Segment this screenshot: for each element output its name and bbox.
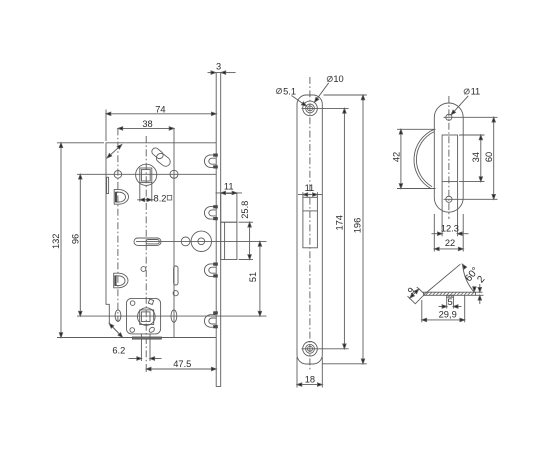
faceplate side view lines — [216, 73, 221, 387]
lock case outline — [106, 143, 216, 338]
svg-text:60: 60 — [484, 152, 494, 162]
top screw hole — [446, 114, 452, 120]
deadbolt inner line — [224, 222, 226, 259]
svg-text:38: 38 — [142, 119, 152, 129]
small pin circle — [141, 267, 146, 272]
mounting foot under plate — [132, 337, 161, 339]
angled capsule lower lobe — [154, 152, 172, 169]
slotted link capsule outer — [134, 238, 161, 245]
dim 42 — [391, 129, 435, 188]
dim 38 — [118, 119, 174, 130]
bent lip (45 deg) — [410, 289, 425, 304]
dim 51 — [248, 241, 262, 316]
strike plate centerline (dashed) — [448, 96, 450, 219]
dim 25.8 deadbolt height — [239, 201, 254, 260]
edge tab 1 — [204, 154, 217, 169]
screw hole left — [114, 171, 122, 179]
deadbolt — [221, 222, 237, 259]
dim 196 — [322, 95, 367, 364]
svg-text:3: 3 — [216, 61, 221, 71]
small rectangle on left edge — [107, 177, 109, 193]
curved lip wing inner arc — [416, 132, 434, 187]
top hole crosshair / 174 extension — [302, 107, 349, 109]
lower hub square outer — [140, 310, 154, 325]
strip hatching — [426, 292, 475, 295]
D-shaped hole lower inner — [116, 276, 125, 286]
horizontal centerline upper hub (96 top extension) — [77, 173, 216, 175]
dim 2 thickness arrows — [476, 284, 484, 304]
D-shaped hole upper outer — [114, 190, 128, 205]
svg-text:11: 11 — [224, 182, 234, 192]
dim 11 latch width — [216, 182, 243, 195]
strike plate outline (stadium) — [434, 103, 463, 212]
deadbolt cylinder inner — [198, 238, 205, 245]
svg-text:174: 174 — [335, 215, 345, 231]
top screw hole mid — [306, 104, 315, 113]
svg-text:18: 18 — [305, 374, 315, 384]
svg-text:47.5: 47.5 — [173, 359, 191, 369]
ellipse on left internal line — [115, 310, 121, 321]
bottom hole crosshair / 60 extension — [444, 198, 498, 200]
strike plate section strip — [424, 292, 476, 295]
D-shaped hole upper inner — [117, 192, 126, 202]
deadbolt cylinder outer — [191, 231, 211, 251]
dim 132 — [51, 143, 123, 338]
top screw hole inner — [308, 106, 313, 111]
svg-text:8.2: 8.2 — [154, 194, 167, 204]
bottom screw hole counterbore — [303, 342, 318, 357]
60 degree angle line — [425, 264, 460, 293]
placeholder groups filled by editor — [51, 61, 267, 386]
dim 60 — [484, 117, 495, 199]
upper hub square hole inner — [141, 170, 150, 181]
screw hole right — [170, 170, 178, 178]
upper hub square hole outer — [140, 168, 152, 183]
plate corner oval bottom-right — [148, 326, 155, 333]
latch window — [303, 197, 318, 248]
internal plate line left (dash-dot centerline) — [117, 128, 119, 322]
svg-text:74: 74 — [155, 104, 165, 114]
corner chamfer arrow top-left — [106, 143, 123, 159]
latch window divider — [303, 210, 318, 212]
tab hatching — [448, 295, 453, 297]
svg-text:10: 10 — [333, 74, 343, 84]
faceplate centerline (dashed) — [309, 77, 311, 371]
plate corner hole bottom-left — [130, 328, 135, 333]
plate corner hole top-left — [130, 301, 135, 306]
deadbolt centerline — [136, 240, 267, 242]
D lower left bar — [114, 275, 116, 286]
bottom screw hole — [446, 196, 452, 202]
locating tab under strip — [447, 295, 454, 297]
arc arrowhead top — [461, 263, 467, 269]
bottom hole crosshair / 174 extension — [302, 348, 349, 350]
svg-text:96: 96 — [71, 234, 81, 244]
svg-text:22: 22 — [445, 238, 455, 248]
arc arrowhead — [473, 287, 477, 292]
corner chamfer arrow bottom-left — [108, 322, 124, 338]
dim 6.2 — [112, 334, 161, 362]
svg-text:132: 132 — [51, 234, 61, 250]
angled capsule upper lobe — [150, 146, 164, 160]
dim 12.3 — [432, 182, 469, 237]
svg-text:5: 5 — [448, 297, 453, 307]
edge tab 3 — [204, 263, 217, 278]
dim 3 (faceplate thickness) — [208, 61, 236, 74]
angle arc — [463, 264, 475, 292]
svg-text:29,9: 29,9 — [439, 309, 457, 319]
dim 34 — [459, 135, 485, 182]
svg-text:5.1: 5.1 — [283, 86, 296, 96]
bottom screw hole inner — [308, 346, 313, 351]
dim 74 — [106, 104, 216, 141]
dim 47.5 — [146, 359, 216, 372]
dim 9 lip — [406, 285, 420, 299]
faceplate front view outline — [297, 95, 322, 364]
lower hub mounting plate — [127, 298, 161, 334]
deadbolt link circle small — [181, 237, 190, 246]
latch window — [442, 135, 458, 182]
lower hub circle — [138, 308, 156, 326]
lower hub square inner — [141, 312, 150, 322]
edge tab 4 — [204, 311, 217, 328]
horizontal centerline lower hub (96/51 bottom extension) — [77, 315, 267, 317]
svg-text:11: 11 — [305, 183, 315, 193]
dim 18 — [297, 357, 322, 388]
ellipse on right internal line — [171, 310, 177, 322]
svg-text:25.8: 25.8 — [240, 201, 250, 219]
slotted link capsule inner — [146, 240, 159, 244]
dim 8.2 square — [137, 183, 172, 204]
plate corner tab top-right — [148, 299, 153, 304]
bottom screw hole mid — [306, 344, 315, 353]
D upper left bar — [115, 192, 117, 203]
leader diameter 5.1 — [276, 86, 307, 107]
dim 29,9 — [422, 295, 465, 322]
leader diameter 11 — [450, 87, 480, 116]
dim 22 — [434, 214, 463, 252]
top hole crosshair / 60 extension — [444, 116, 498, 118]
dim 174 — [335, 108, 347, 348]
svg-text:51: 51 — [248, 272, 258, 282]
upper hub follower circle — [136, 164, 157, 185]
D-shaped hole lower outer — [114, 273, 128, 288]
svg-text:196: 196 — [352, 218, 362, 234]
svg-text:12.3: 12.3 — [441, 224, 459, 234]
tiny circle below blade — [173, 291, 178, 296]
svg-text:11: 11 — [471, 87, 481, 97]
top screw hole counterbore — [303, 101, 318, 116]
dim 11 window width — [298, 183, 322, 197]
latch bolt — [221, 194, 237, 223]
svg-text:42: 42 — [391, 152, 401, 162]
vertical centerline through hubs (dashed) — [145, 136, 147, 362]
svg-text:6.2: 6.2 — [112, 345, 125, 355]
edge tab 2 — [204, 205, 217, 220]
curved lip wing outer arc — [414, 129, 434, 189]
lever blade — [174, 266, 178, 285]
dim 96 — [71, 174, 83, 316]
internal plate line right — [173, 128, 175, 337]
dim 5 tab — [439, 297, 462, 309]
leader diameter 10 — [313, 74, 344, 103]
svg-text:34: 34 — [471, 152, 481, 162]
